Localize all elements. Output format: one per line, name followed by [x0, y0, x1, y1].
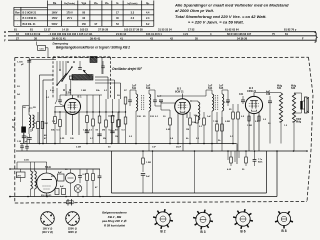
resistor R14 — [98, 112, 101, 144]
svg-text:81 82 76 y: 81 82 76 y — [284, 28, 297, 32]
svg-text:-: - — [17, 23, 18, 26]
resistor 1.5M — [142, 151, 151, 172]
svg-text:C48: C48 — [266, 93, 271, 96]
wire — [28, 58, 30, 113]
field coil S40 — [291, 85, 297, 151]
svg-text:0.1: 0.1 — [90, 138, 94, 140]
wire — [78, 112, 80, 135]
svg-text:90: 90 — [82, 17, 85, 20]
inner box A — [111, 151, 266, 193]
svg-text:B13 03L 21: B13 03L 21 — [23, 23, 37, 26]
wire — [152, 151, 154, 193]
svg-text:27: 27 — [16, 36, 19, 40]
labels IF2 — [213, 102, 232, 123]
tube B2 — [175, 99, 191, 115]
svg-text:Wdg: Wdg — [291, 85, 297, 87]
labels under B1 — [51, 130, 125, 132]
svg-text:Rør: Rør — [15, 12, 19, 15]
wire — [60, 95, 102, 99]
wire — [206, 90, 228, 96]
svg-text:}: } — [314, 31, 318, 43]
svg-text:1nF: 1nF — [219, 84, 224, 87]
capacitor C6 — [27, 134, 31, 144]
wire — [186, 112, 188, 118]
svg-text:1.1nF: 1.1nF — [224, 102, 230, 104]
IF1 primary S11 — [136, 90, 138, 144]
svg-text:1.9M: 1.9M — [81, 90, 86, 92]
svg-text:55: 55 — [195, 36, 198, 40]
svg-text:C41: C41 — [239, 93, 244, 96]
wave switch contact arm 1 — [61, 66, 73, 82]
svg-text:S11: S11 — [132, 87, 137, 90]
voltage note text block — [174, 2, 289, 24]
wire — [263, 100, 270, 102]
svg-text:Vga: Vga — [82, 2, 87, 5]
labels near B2 — [166, 115, 203, 131]
resistor R35 — [192, 116, 198, 124]
label 50k above rectifier — [45, 167, 51, 169]
wire — [29, 59, 56, 61]
svg-text:B 8: B 8 — [281, 229, 286, 233]
wire — [236, 144, 238, 165]
speaker voice coil — [293, 93, 302, 114]
label 50 — [34, 123, 48, 125]
wire — [106, 99, 113, 112]
resistor R31 — [232, 104, 235, 144]
wire — [108, 116, 115, 144]
disc 1 label — [42, 227, 53, 235]
inner box B — [10, 151, 277, 197]
svg-text:39 40 41: 39 40 41 — [90, 36, 101, 40]
resistor R33 — [221, 117, 224, 144]
wire — [161, 102, 175, 103]
svg-text:af 2000 Ohm pr Volt.: af 2000 Ohm pr Volt. — [175, 8, 214, 13]
svg-text:2x50: 2x50 — [24, 160, 30, 162]
resistor R15 — [105, 112, 108, 144]
svg-text:150: 150 — [82, 23, 87, 26]
capacitor 4uF box — [58, 171, 65, 181]
svg-text:195 V ∅: 195 V ∅ — [43, 227, 53, 231]
svg-text:4: 4 — [210, 32, 212, 36]
svg-text:38: 38 — [34, 36, 37, 40]
voltage adjust disc 2 — [66, 212, 80, 226]
label S11 S13 — [132, 84, 151, 90]
resistor R72 — [242, 151, 247, 171]
resistor R62 — [86, 169, 89, 197]
power transformer secondary — [35, 162, 37, 189]
svg-text:2M: 2M — [102, 130, 105, 132]
svg-text:14 18: 14 18 — [62, 28, 69, 32]
svg-text:66 R 100 106 62 107: 66 R 100 106 62 107 — [227, 32, 252, 36]
svg-text:42: 42 — [170, 36, 173, 40]
svg-text:Balk: Balk — [258, 162, 263, 164]
resistor R21 — [169, 110, 172, 144]
wire — [87, 95, 100, 112]
coil R23 — [190, 101, 200, 144]
svg-text:130: 130 — [70, 138, 74, 140]
svg-text:B 3: B 3 — [200, 230, 205, 234]
svg-text:80: 80 — [82, 12, 85, 15]
resistor R12 — [86, 112, 89, 144]
svg-text:1nF: 1nF — [152, 147, 157, 149]
svg-text:1nF: 1nF — [146, 84, 151, 87]
svg-text:2M: 2M — [45, 123, 48, 125]
wire — [269, 110, 271, 144]
resistor R16 — [111, 112, 114, 144]
svg-text:S5: S5 — [33, 107, 36, 109]
svg-text:1.2: 1.2 — [52, 121, 56, 123]
capacitor C12 — [97, 134, 101, 136]
svg-text:50k: 50k — [96, 90, 100, 92]
labels mid-bottom — [76, 147, 182, 149]
junction dots mid rail2 — [142, 150, 294, 152]
svg-text:0.1: 0.1 — [104, 90, 108, 92]
resistor 1.15 Mohm box — [37, 42, 49, 58]
svg-text:40: 40 — [116, 17, 119, 20]
smoothing choke circle — [66, 169, 76, 183]
svg-text:43: 43 — [150, 36, 153, 40]
wire — [42, 80, 44, 144]
svg-text:50: 50 — [268, 123, 271, 125]
chassis border top — [15, 56, 309, 58]
svg-text:1.2: 1.2 — [284, 125, 288, 127]
svg-text:47: 47 — [95, 186, 98, 189]
capacitor C11 — [85, 131, 89, 133]
svg-text:S40: S40 — [291, 87, 296, 90]
table row B3 — [17, 17, 150, 20]
svg-text:μF: μF — [25, 141, 28, 143]
svg-text:F: F — [4, 39, 6, 43]
bus C numbers — [16, 32, 288, 36]
svg-text:30: 30 — [163, 116, 166, 118]
resistor R15 — [124, 97, 127, 104]
svg-text:50: 50 — [34, 123, 37, 125]
bus F numbers — [16, 36, 304, 40]
svg-text:LYS: LYS — [17, 175, 22, 177]
svg-text:0.3: 0.3 — [122, 130, 126, 132]
wire — [40, 74, 54, 76]
wire — [72, 115, 74, 136]
labels PSU — [24, 160, 68, 179]
wire — [60, 61, 66, 74]
svg-text:0.3: 0.3 — [129, 136, 133, 138]
label 1.50uF — [17, 141, 28, 143]
gang rotor arrow — [83, 70, 90, 78]
tube socket B5 bottom view — [233, 209, 253, 234]
wire — [253, 114, 255, 150]
wave switch contact dots — [59, 61, 75, 95]
wire — [130, 90, 136, 96]
tube socket B3 bottom view — [193, 210, 213, 235]
wire — [23, 90, 47, 144]
wire — [149, 90, 155, 96]
wire — [155, 105, 161, 107]
gang box top — [53, 56, 111, 58]
svg-text:0.1: 0.1 — [199, 126, 203, 128]
resistor R24 — [203, 112, 206, 144]
svg-text:S15: S15 — [219, 87, 224, 90]
resistor R16 — [117, 112, 120, 144]
svg-text:0.2: 0.2 — [263, 119, 267, 121]
IF2 secondary S15 — [222, 90, 224, 151]
rectifier tube B13 — [37, 173, 57, 193]
wire — [95, 77, 108, 99]
svg-text:S14: S14 — [208, 87, 213, 90]
svg-text:25: 25 — [143, 116, 146, 118]
svg-text:- 4 103 106 109 110 103 1 105: - 4 103 106 109 110 103 1 105 4 2 111 — [48, 32, 93, 36]
svg-text:81: 81 — [285, 32, 288, 36]
wire — [39, 75, 41, 144]
svg-text:105 23: 105 23 — [80, 28, 88, 32]
IF1 core — [141, 95, 144, 110]
svg-text:pF: pF — [21, 64, 24, 66]
svg-text:16: 16 — [16, 32, 19, 36]
wire — [65, 84, 67, 96]
svg-text:S41: S41 — [277, 87, 282, 90]
bus E numbers — [14, 28, 297, 32]
svg-text:0.1: 0.1 — [196, 138, 200, 140]
svg-text:75: 75 — [272, 32, 275, 36]
svg-text:0.1: 0.1 — [230, 136, 234, 138]
svg-text:104 41 40 6 1: 104 41 40 6 1 — [146, 32, 162, 36]
svg-text:4.4: 4.4 — [146, 12, 150, 15]
resistor R18 — [124, 112, 127, 144]
capacitor 5nF — [141, 174, 151, 194]
wire — [182, 94, 184, 99]
svg-text:Ra(Triode): Ra(Triode) — [64, 3, 75, 5]
caption oscillator rotated — [112, 67, 143, 71]
svg-text:-: - — [17, 17, 18, 20]
svg-text:1.9M: 1.9M — [83, 130, 88, 132]
svg-text:B 2 9CW 21: B 2 9CW 21 — [23, 12, 37, 15]
svg-text:Bølgelængdeomskifteren er tegn: Bølgelængdeomskifteren er tegnet i Still… — [56, 46, 130, 50]
IF2 cap right — [226, 92, 230, 106]
svg-text:S7: S7 — [124, 90, 127, 92]
wire — [43, 79, 53, 81]
svg-text:S6: S6 — [23, 107, 26, 109]
tube data table grid — [14, 1, 154, 27]
gang rotor section 2 hatched — [90, 57, 97, 63]
capacitor C64 — [95, 169, 101, 197]
svg-text:Wdg: Wdg — [277, 85, 283, 87]
dæmpning label — [53, 42, 69, 46]
wire — [182, 114, 184, 151]
svg-text:41: 41 — [120, 36, 123, 40]
label above B2 — [175, 87, 184, 94]
wire — [65, 112, 67, 135]
wire — [71, 183, 79, 197]
mains lead-in dot 2 — [9, 196, 11, 198]
junction dots mid rail — [39, 143, 234, 145]
svg-text:Ia(Triode): Ia(Triode) — [127, 3, 137, 5]
fuse ticks on border — [66, 199, 73, 206]
svg-text:13 17: 13 17 — [44, 28, 51, 32]
svg-text:4nF: 4nF — [266, 90, 271, 93]
tube B1 — [65, 99, 81, 115]
antenna coupling capacitor — [17, 60, 31, 66]
chassis border left — [14, 58, 16, 204]
svg-text:Va₂: Va₂ — [94, 2, 98, 5]
svg-text:2.4: 2.4 — [146, 17, 150, 20]
output transformer primary S41 — [277, 85, 283, 143]
power transformer core — [32, 172, 34, 188]
svg-text:81: 81 — [30, 28, 33, 32]
svg-text:S4: S4 — [17, 93, 20, 96]
aerial coil S2 — [29, 108, 31, 134]
svg-text:Ia: Ia — [116, 2, 119, 5]
svg-text:39 40 31 41: 39 40 31 41 — [52, 36, 66, 40]
svg-text:1.50: 1.50 — [17, 141, 22, 143]
IF1 trim cap right — [153, 96, 157, 106]
svg-text:2.05: 2.05 — [66, 92, 71, 95]
svg-text:6k: 6k — [186, 138, 189, 140]
svg-text:105 23 37 36 28: 105 23 37 36 28 — [124, 28, 143, 32]
svg-text:1.5M: 1.5M — [146, 162, 151, 164]
gang box right — [110, 57, 112, 99]
svg-text:7.1M: 7.1M — [213, 121, 218, 123]
capacitor C41 — [239, 93, 245, 104]
svg-text:17 52: 17 52 — [188, 28, 195, 32]
svg-text:1nF: 1nF — [208, 84, 213, 87]
wire — [177, 113, 179, 144]
svg-text:Total Strømforbrug ved 220 V V: Total Strømforbrug ved 220 V Vex. = ca 4… — [175, 14, 267, 19]
wire — [17, 162, 47, 173]
capacitor C5 — [22, 133, 26, 144]
coil S3 — [33, 115, 35, 131]
svg-text:Wdg: Wdg — [296, 122, 302, 124]
svg-text:220V ∅: 220V ∅ — [68, 227, 78, 231]
svg-text:3.3: 3.3 — [131, 12, 135, 15]
svg-text:0.1: 0.1 — [155, 116, 159, 118]
resistor R63 — [92, 169, 95, 197]
table header text — [53, 1, 150, 5]
svg-text:31 55 53 54: 31 55 53 54 — [158, 28, 172, 32]
label S1 — [12, 119, 16, 129]
capacitor C72 — [253, 151, 264, 166]
svg-text:97: 97 — [95, 23, 98, 26]
svg-text:2.2M: 2.2M — [76, 147, 81, 149]
svg-text:21 64 12: 21 64 12 — [116, 32, 127, 36]
wire — [228, 151, 239, 162]
label above B1 — [66, 92, 82, 99]
svg-text:1nF: 1nF — [132, 84, 137, 87]
wire — [10, 168, 100, 170]
svg-text:25: 25 — [229, 109, 232, 111]
svg-text:380V ∅: 380V ∅ — [68, 230, 78, 234]
electrolytic C61 — [55, 189, 59, 195]
extra tiny labels row2 — [17, 86, 288, 140]
wire — [27, 129, 31, 144]
svg-text:50kΩ: 50kΩ — [45, 167, 51, 169]
label B13 under rectifier — [41, 195, 52, 197]
voltage adjust disc 1 — [41, 212, 55, 226]
svg-text:17: 17 — [116, 12, 119, 15]
trimmer capacitor T2 — [101, 61, 104, 74]
pin rect B3b — [258, 116, 260, 121]
svg-text:80: 80 — [115, 130, 118, 132]
IF2 primary S14 — [212, 90, 214, 144]
capacitor C51 — [20, 144, 24, 152]
capacitor 0.1 — [78, 169, 86, 183]
trimmer capacitor T1 — [78, 61, 82, 69]
wire — [95, 83, 121, 99]
svg-text:Ra: Ra — [53, 1, 57, 5]
gang box left — [52, 57, 54, 99]
label 7000 — [296, 119, 302, 124]
wire — [254, 92, 281, 94]
svg-text:81: 81 — [14, 28, 17, 32]
svg-text:0.5: 0.5 — [255, 121, 259, 123]
svg-text:B 3 CKW 21: B 3 CKW 21 — [23, 17, 38, 20]
svg-text:54 36 26: 54 36 26 — [237, 36, 248, 40]
wire — [46, 193, 48, 197]
wire — [119, 99, 126, 112]
svg-text:170 V: 170 V — [66, 12, 73, 15]
svg-text:8μF: 8μF — [60, 186, 64, 188]
wire — [161, 95, 206, 97]
bottom text block — [101, 211, 127, 228]
wire — [95, 80, 115, 99]
svg-text:8.2: 8.2 — [146, 23, 150, 26]
capacitor C13 — [110, 131, 114, 133]
svg-text:150V: 150V — [52, 17, 58, 20]
svg-text:0.6: 0.6 — [170, 138, 174, 140]
IF1 trim cap left — [128, 96, 132, 106]
speaker cone — [303, 97, 309, 113]
resistor R10 — [54, 112, 57, 144]
electrolytic C62 — [60, 186, 66, 195]
mains lead-in dot — [9, 168, 11, 170]
table row B13 — [17, 23, 150, 26]
wire — [20, 169, 22, 182]
wire — [248, 112, 250, 151]
svg-text:5k: 5k — [218, 140, 221, 142]
label S14 S15 — [208, 84, 224, 90]
disc 2 label — [68, 227, 78, 235]
svg-text:4μF: 4μF — [58, 171, 63, 174]
svg-text:C: C — [4, 34, 7, 38]
svg-text:37 36 28: 37 36 28 — [98, 28, 109, 32]
table row B2 — [15, 12, 150, 15]
grid capacitor C21 — [157, 95, 163, 102]
IF1 secondary S13 — [149, 90, 151, 151]
bus right brace — [314, 31, 318, 43]
bus line F — [4, 39, 316, 43]
resistor R11 — [59, 112, 62, 144]
svg-text:500V: 500V — [52, 23, 58, 26]
chassis border bottom — [15, 202, 307, 204]
tube socket B2 bottom view — [153, 209, 173, 234]
svg-text:4.05: 4.05 — [227, 168, 232, 171]
pin rect B3a — [248, 116, 250, 121]
svg-text:53: 53 — [116, 23, 119, 26]
power transformer primary — [31, 162, 33, 189]
resistor R13 — [92, 112, 95, 144]
wire — [101, 57, 103, 74]
wave switch contact arm 2 — [56, 73, 67, 86]
svg-text:S9: S9 — [117, 95, 120, 97]
svg-text:Oscillator drejet 90°: Oscillator drejet 90° — [112, 67, 143, 71]
resistor R4 — [41, 122, 44, 129]
svg-text:25 V: 25 V — [67, 17, 72, 20]
svg-text:1M: 1M — [115, 136, 118, 138]
chassis border right — [307, 57, 313, 201]
wire — [55, 88, 57, 104]
wire — [194, 151, 196, 193]
svg-text:1M: 1M — [186, 129, 189, 131]
bus line E — [4, 30, 316, 34]
resistor R34 — [216, 112, 219, 144]
